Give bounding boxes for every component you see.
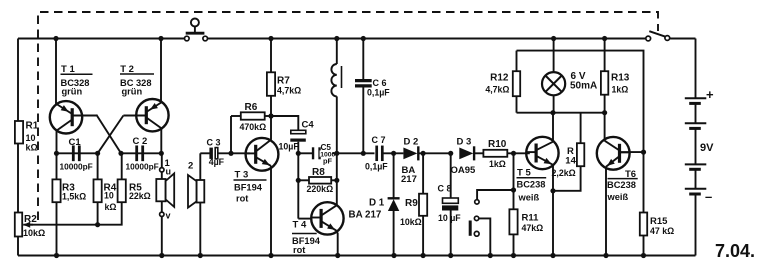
svg-text:R8: R8	[312, 167, 325, 178]
svg-text:T 3: T 3	[235, 170, 249, 181]
resistor R15	[640, 213, 647, 236]
wire: R2 wiper to R4/R5	[23, 224, 97, 226]
wire: +9V top rail	[18, 38, 184, 40]
capacitor C8 10µF	[450, 153, 452, 198]
wire: T5 emitter	[552, 165, 554, 256]
transistor T2 (BC328)	[136, 99, 168, 131]
socket u	[160, 168, 164, 172]
svg-text:rot: rot	[293, 245, 305, 255]
battery 9V	[695, 39, 697, 99]
svg-text:50mA: 50mA	[570, 81, 597, 92]
svg-text:T 5: T 5	[517, 167, 531, 178]
wire: T4 emitter to rail	[336, 231, 337, 256]
svg-text:10: 10	[104, 191, 114, 201]
transistor T1 (BC328)	[50, 101, 82, 133]
wire: C2 node	[121, 152, 161, 154]
wire: speaker 1 branch	[161, 153, 163, 167]
resistor R13	[604, 39, 606, 72]
svg-text:0,1µF: 0,1µF	[367, 87, 390, 97]
svg-text:OA95: OA95	[451, 165, 477, 176]
svg-text:10 µF: 10 µF	[438, 213, 461, 223]
resistor R5	[121, 153, 123, 179]
svg-text:R10: R10	[488, 139, 507, 150]
svg-text:10000pF: 10000pF	[60, 162, 93, 172]
wire: T6 base bus	[517, 51, 644, 213]
svg-text:R12: R12	[490, 72, 509, 83]
capacitor C2 10000pF	[135, 145, 138, 161]
svg-text:2,2kΩ: 2,2kΩ	[552, 168, 576, 178]
wire: LS2 to C3	[200, 152, 210, 154]
wire: T4 collector	[336, 153, 338, 206]
wire: T3 collector	[270, 116, 272, 140]
svg-text:220kΩ: 220kΩ	[307, 184, 334, 194]
diode D1 BA217	[393, 153, 395, 199]
svg-text:grün: grün	[122, 87, 143, 97]
resistor R6	[230, 116, 232, 153]
svg-text:22kΩ: 22kΩ	[129, 191, 151, 201]
capacitor C3 4µF	[209, 148, 213, 159]
resistor R7	[270, 39, 272, 73]
resistor R12	[516, 51, 518, 72]
capacitor C1 10000pF	[72, 145, 75, 161]
svg-text:R1: R1	[26, 121, 39, 132]
resistor R8 220k	[298, 179, 309, 181]
svg-text:BC238: BC238	[607, 180, 636, 190]
svg-text:R6: R6	[245, 102, 258, 113]
svg-text:BF194: BF194	[234, 182, 263, 192]
svg-text:pF: pF	[323, 157, 333, 166]
svg-text:D 2: D 2	[404, 137, 419, 148]
wire: left rail	[17, 39, 19, 122]
transistor T4 (BF194)	[311, 202, 343, 234]
svg-text:C 2: C 2	[133, 136, 148, 147]
svg-text:217: 217	[401, 174, 417, 185]
wire: C4/R8/T4-base node	[297, 153, 299, 218]
wire: T2 emitter to rail	[160, 39, 162, 104]
svg-text:grün: grün	[62, 87, 83, 97]
svg-text:C 7: C 7	[372, 135, 386, 145]
potentiometer R2	[15, 213, 22, 237]
svg-text:–: –	[705, 189, 712, 204]
resistor R10	[483, 150, 507, 157]
svg-text:1kΩ: 1kΩ	[612, 84, 629, 94]
power switch S2	[646, 36, 651, 41]
resistor R1	[15, 121, 23, 144]
wire: C3 to T3 base	[218, 152, 250, 154]
svg-text:10000pF: 10000pF	[126, 162, 159, 172]
resistor R4	[97, 153, 99, 179]
svg-text:u: u	[166, 167, 172, 177]
diode D2 BA217	[403, 148, 417, 160]
svg-text:weiß: weiß	[518, 193, 540, 203]
svg-text:0,1µF: 0,1µF	[365, 162, 388, 172]
plug bar	[469, 221, 472, 236]
svg-text:BC238: BC238	[517, 180, 546, 190]
svg-text:+: +	[706, 87, 714, 102]
transistor T6 (BC238)	[597, 137, 630, 170]
svg-text:T 4: T 4	[293, 220, 307, 231]
loudspeaker LS1	[161, 172, 163, 179]
transistor T3 (BF194)	[246, 138, 279, 171]
diode D3 OA95	[459, 148, 473, 160]
svg-text:47 kΩ: 47 kΩ	[650, 226, 674, 236]
svg-text:T 1: T 1	[61, 64, 75, 75]
resistor R3	[56, 153, 58, 179]
socket v	[160, 212, 164, 216]
wire: T1 collector down	[56, 130, 58, 154]
svg-text:v: v	[166, 211, 171, 221]
svg-text:1,5kΩ: 1,5kΩ	[62, 191, 86, 201]
svg-text:rot: rot	[236, 194, 248, 204]
inductor L1	[336, 39, 338, 65]
wire: T3 emitter to rail	[270, 166, 272, 256]
svg-text:1kΩ: 1kΩ	[489, 159, 506, 169]
svg-text:R9: R9	[405, 198, 418, 209]
svg-text:10kΩ: 10kΩ	[23, 228, 45, 238]
svg-text:9V: 9V	[700, 142, 714, 154]
svg-text:10: 10	[26, 133, 36, 143]
svg-text:14: 14	[565, 155, 576, 166]
svg-text:D 3: D 3	[457, 137, 472, 148]
svg-text:10µF: 10µF	[279, 142, 300, 152]
wire: signal line	[337, 152, 375, 154]
svg-text:7.04.: 7.04.	[715, 241, 755, 261]
wire: T2 collector down	[160, 128, 162, 153]
wire: C1 node	[57, 152, 98, 154]
pushbutton switch S1	[185, 36, 190, 41]
wire: T5 collector	[552, 113, 554, 142]
wire: T2 base cross-coupling to C1	[98, 116, 124, 154]
svg-text:D 1: D 1	[369, 198, 385, 209]
svg-text:C4: C4	[302, 120, 315, 131]
capacitor C5 1000pF	[298, 152, 313, 154]
svg-text:4µF: 4µF	[209, 157, 225, 167]
mechanical linkage (dashed)	[38, 12, 658, 220]
wire: T6 base	[620, 151, 644, 153]
svg-text:BA 217: BA 217	[349, 210, 382, 221]
svg-text:470kΩ: 470kΩ	[240, 122, 267, 132]
svg-text:10kΩ: 10kΩ	[400, 217, 422, 227]
svg-text:2: 2	[188, 161, 193, 172]
capacitor C4 10µF	[271, 116, 298, 130]
svg-text:R2: R2	[24, 214, 37, 225]
svg-text:C 8: C 8	[438, 184, 452, 194]
transistor T5 (BC238)	[526, 137, 558, 169]
wire: T1 emitter to rail	[55, 39, 57, 106]
svg-text:4,7kΩ: 4,7kΩ	[485, 84, 509, 94]
resistor R9	[422, 153, 424, 193]
svg-text:R11: R11	[522, 213, 540, 224]
capacitor C6 0,1µF	[362, 39, 364, 80]
svg-text:R13: R13	[611, 72, 630, 83]
svg-text:C 3: C 3	[207, 137, 221, 147]
wire: T6 emitter	[605, 167, 607, 256]
svg-text:kΩ: kΩ	[26, 143, 38, 153]
wire: collector bus	[517, 112, 605, 114]
lamp 6V 50mA	[553, 39, 555, 73]
svg-text:C1: C1	[69, 137, 82, 148]
jack sockets	[477, 190, 513, 200]
wire: T1 base cross-coupling to C2	[96, 115, 121, 154]
svg-text:weiß: weiß	[607, 192, 629, 202]
svg-text:4,7kΩ: 4,7kΩ	[277, 86, 301, 96]
resistor R14	[580, 113, 582, 144]
svg-text:47kΩ: 47kΩ	[522, 223, 544, 233]
wire: 0V bottom rail	[18, 255, 696, 257]
resistor R11	[513, 153, 515, 209]
svg-text:kΩ: kΩ	[105, 202, 117, 212]
capacitor C7 0,1µF	[375, 146, 378, 162]
